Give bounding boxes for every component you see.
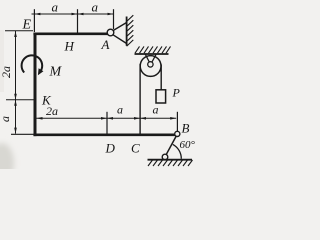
svg-text:a: a xyxy=(117,103,123,117)
dimension line 2a (column-D) xyxy=(37,117,108,119)
support link B-roller xyxy=(166,136,176,155)
svg-text:C: C xyxy=(131,141,140,156)
beam EH A (top horizontal member) xyxy=(33,32,107,35)
dimension line a (E-H) xyxy=(32,13,78,15)
load P box xyxy=(156,90,166,103)
ground line at B xyxy=(148,159,193,161)
pulley bracket xyxy=(145,54,150,64)
rope right (pulley to load) xyxy=(160,65,162,91)
svg-text:M: M xyxy=(49,65,63,80)
extension line at E level xyxy=(5,30,33,32)
svg-text:A: A xyxy=(101,37,110,52)
background paper xyxy=(0,0,202,169)
60 degree angle arc xyxy=(173,144,182,158)
svg-text:H: H xyxy=(64,39,75,54)
dimension line 2a (E-K, left) xyxy=(15,31,17,100)
svg-text:60°: 60° xyxy=(180,139,196,151)
tick above B xyxy=(176,112,178,131)
dimension line a (C-B) xyxy=(140,117,176,119)
column E-K (left vertical member) xyxy=(34,33,37,137)
pulley wheel xyxy=(140,56,161,77)
svg-text:E: E xyxy=(22,18,32,33)
svg-text:a: a xyxy=(0,116,12,122)
dimension line a (D-C) xyxy=(107,117,140,119)
svg-text:2a: 2a xyxy=(0,66,13,78)
rope left (pulley to C) xyxy=(139,64,141,134)
link bars of pin support A xyxy=(112,23,127,32)
svg-text:2a: 2a xyxy=(46,104,58,118)
tick above A xyxy=(113,9,115,29)
wall hatching xyxy=(127,15,134,46)
svg-text:P: P xyxy=(172,86,181,100)
pin B circle xyxy=(175,131,180,136)
ceiling above pulley xyxy=(135,53,169,55)
extension line at K level xyxy=(6,99,34,101)
svg-text:B: B xyxy=(182,121,190,136)
ground hatching xyxy=(148,160,193,166)
svg-text:a: a xyxy=(153,103,159,117)
pulley axle xyxy=(148,62,153,67)
dimension line a (H-A) xyxy=(78,13,114,15)
moment M arc (clockwise) xyxy=(22,55,43,72)
extension line at beam level (bottom-left) xyxy=(11,133,34,135)
svg-text:a: a xyxy=(92,0,99,15)
svg-text:D: D xyxy=(105,141,116,156)
tick above D xyxy=(106,112,108,134)
dimension line a (K-beam, left) xyxy=(15,100,17,134)
ceiling hatching xyxy=(135,46,171,53)
roller pin circle on ground xyxy=(162,154,168,160)
pin A circle xyxy=(107,29,114,36)
tick above E xyxy=(33,9,35,32)
svg-text:a: a xyxy=(52,0,59,15)
tick above H xyxy=(77,9,79,33)
beam bottom D C B (bottom horizontal member) xyxy=(33,134,175,137)
wall at A (vertical hatched support face) xyxy=(126,17,128,46)
